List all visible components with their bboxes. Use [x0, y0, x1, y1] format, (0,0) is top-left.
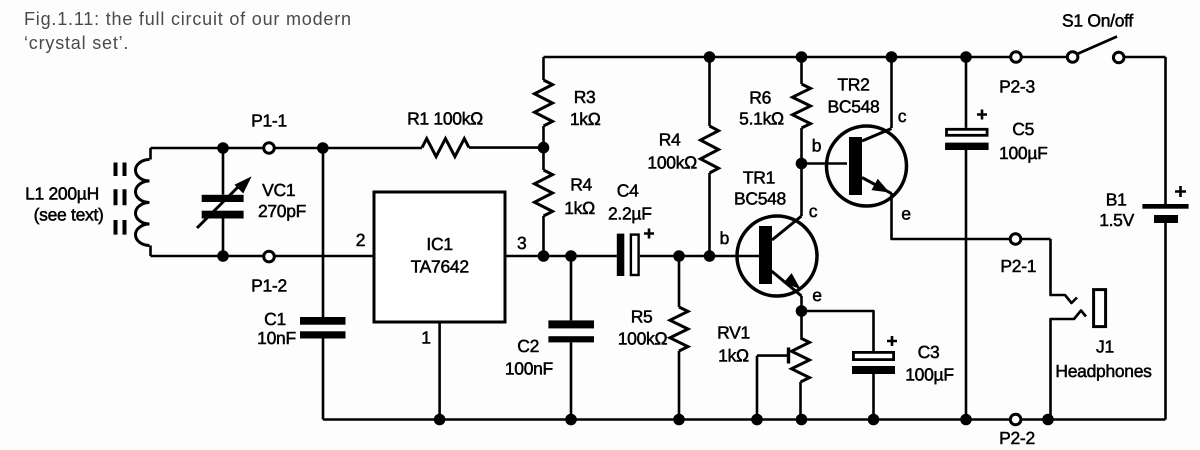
svg-text:BC548: BC548 [734, 189, 786, 209]
svg-text:2.2µF: 2.2µF [608, 204, 652, 224]
node: RV1 wiper ground junction [751, 414, 763, 426]
potentiometer RV1 body [792, 338, 810, 382]
resistor R4 1k [535, 170, 553, 216]
node: C2 junction [565, 250, 577, 262]
svg-text:R4: R4 [659, 130, 681, 150]
svg-text:100µF: 100µF [999, 143, 1047, 163]
wire: J1 upper contact from P2-1 [1051, 239, 1078, 303]
svg-text:TR1: TR1 [743, 168, 775, 188]
wire: TR1 collector vertical x=801.5 [800, 163, 803, 216]
wire: L1/VC1 tank top rail y=148 [151, 147, 423, 150]
node: TR2 collector rail junction [886, 51, 898, 63]
svg-text:C5: C5 [1012, 119, 1034, 139]
svg-text:R1 100kΩ: R1 100kΩ [407, 109, 483, 129]
svg-text:1.5V: 1.5V [1099, 210, 1134, 230]
svg-text:R5: R5 [631, 307, 653, 327]
node: C5 ground junction [960, 414, 972, 426]
wire: TR2 base wire y=164 [802, 162, 848, 165]
svg-text:P2-1: P2-1 [1000, 256, 1036, 276]
svg-text:VC1: VC1 [262, 180, 295, 200]
svg-text:P2-2: P2-2 [999, 428, 1035, 448]
svg-text:1kΩ: 1kΩ [718, 346, 749, 366]
capacitor C1 10nF [300, 317, 346, 339]
wire: TR2 emitter down to P2-1 line [892, 193, 1051, 239]
svg-text:2: 2 [356, 230, 365, 250]
svg-text:RV1: RV1 [717, 323, 750, 343]
inductor L1 [136, 160, 150, 246]
node: R5 ground junction [673, 414, 685, 426]
svg-text:TR2: TR2 [837, 75, 869, 95]
wire: VC1 branch x=223 [222, 148, 225, 256]
node: IC pin1 ground junction [434, 414, 446, 426]
svg-text:C4: C4 [617, 181, 639, 201]
switch S1 right contact [1113, 52, 1124, 63]
svg-text:Headphones: Headphones [1055, 361, 1152, 381]
L1 ferrite core dashes [116, 163, 125, 235]
wire: R4(100k) branch x=709.5 [708, 57, 711, 256]
svg-text:B1: B1 [1106, 189, 1127, 209]
wire: R3-R4 chain x=543.5 [542, 57, 545, 256]
svg-text:c: c [898, 106, 907, 126]
node: RV1 ground junction [796, 414, 808, 426]
wire: emitter to C3 branch [802, 311, 874, 420]
wire: top supply rail y=57 [544, 56, 1166, 59]
svg-text:(see text): (see text) [34, 205, 104, 225]
svg-text:e: e [812, 285, 821, 305]
resistor R1 100k [422, 139, 469, 157]
svg-text:100kΩ: 100kΩ [647, 153, 697, 173]
figure caption [24, 8, 352, 55]
wire: battery right edge x=1165.5 [1164, 57, 1167, 420]
node: VC1 bottom junction [217, 250, 229, 262]
wire: IC pin3 / signal line y=256 [505, 255, 759, 258]
svg-text:1kΩ: 1kΩ [570, 109, 601, 129]
svg-text:IC1: IC1 [426, 234, 452, 254]
capacitor C2 100nF [548, 320, 594, 342]
polarity + of C5 [977, 110, 987, 120]
capacitor C5 100uF electrolytic [945, 129, 989, 150]
node: pin3/R4 junction [538, 250, 550, 262]
svg-text:P1-1: P1-1 [251, 110, 287, 130]
wire: RV1 wiper to ground x=757 [757, 356, 787, 420]
polarity + of B1 [1175, 186, 1186, 197]
node: R5 junction [673, 250, 685, 262]
wire: C2 branch x=571 [570, 256, 573, 420]
svg-text:e: e [901, 204, 910, 224]
svg-text:P1-2: P1-2 [251, 276, 287, 296]
wire: TR2 collector vertical x=891.5 [890, 57, 893, 128]
svg-text:5.1kΩ: 5.1kΩ [739, 109, 784, 129]
resistor R5 100k [670, 307, 688, 351]
IC U1 TA7642 box [374, 192, 505, 322]
node: C3 ground junction [868, 414, 880, 426]
capacitor C4 2.2uF electrolytic [617, 234, 639, 276]
wire: R5 branch x=679 [678, 256, 681, 420]
resistor R4 100k [701, 126, 719, 173]
terminal P1-1 [264, 143, 275, 154]
jack J1 plug body [1094, 290, 1106, 327]
svg-text:L1 200µH: L1 200µH [25, 184, 99, 204]
switch S1 lever [1076, 37, 1117, 55]
node: J1 ground junction [1042, 414, 1054, 426]
wire: TR1 emitter vertical and RV1 top lead x=801.5 [801, 296, 802, 420]
svg-text:C2: C2 [517, 336, 539, 356]
node: antenna/R1 junction [317, 142, 329, 154]
svg-text:C1: C1 [264, 309, 286, 329]
wire: R6 branch x=801.5 [800, 57, 803, 163]
terminal P2-1 [1010, 234, 1021, 245]
battery B1 [1142, 204, 1188, 223]
svg-text:1kΩ: 1kΩ [564, 198, 595, 218]
node: R6 top rail junction [796, 51, 808, 63]
polarity + of C4 [644, 229, 654, 239]
svg-text:TA7642: TA7642 [411, 257, 469, 277]
svg-text:R6: R6 [749, 87, 771, 107]
potentiometer RV1 wiper T-bar [787, 348, 790, 364]
node: C2 ground junction [565, 414, 577, 426]
wire: antenna branch down x=323 through C1 to ground [322, 148, 325, 420]
wire: C5 branch x=966 [965, 57, 968, 420]
node: TR1 emitter junction [796, 305, 808, 317]
polarity + of C3 [887, 336, 897, 346]
svg-text:J1: J1 [1096, 337, 1114, 357]
resistor R6 5.1k [793, 84, 811, 128]
svg-text:P2-3: P2-3 [999, 76, 1035, 96]
svg-text:b: b [812, 136, 821, 156]
svg-text:C3: C3 [918, 342, 940, 362]
node: VC1 top junction [217, 142, 229, 154]
switch S1 left contact [1067, 52, 1078, 63]
capacitor C3 100uF electrolytic [852, 352, 895, 374]
wire: IC pin1 to ground x=439.6 [438, 322, 441, 420]
terminal P2-2 [1010, 414, 1021, 425]
svg-text:R3: R3 [574, 87, 596, 107]
svg-text:b: b [720, 228, 729, 248]
variable capacitor VC1 [197, 178, 251, 229]
wire: R1 left/right leads y=147.6 [469, 146, 544, 149]
transistor Q2 TR2 BC548 [827, 126, 907, 206]
resistor R3 1k [535, 80, 553, 126]
wire: L1 left leg verticals [149, 148, 152, 256]
svg-text:100nF: 100nF [505, 358, 553, 378]
svg-text:S1 On/off: S1 On/off [1062, 11, 1133, 31]
svg-text:100µF: 100µF [905, 365, 953, 385]
svg-text:100kΩ: 100kΩ [618, 328, 668, 348]
node: R6/TR2 base junction [796, 158, 808, 170]
svg-text:R4: R4 [570, 175, 592, 195]
wire: tank bottom / IC pin 2 line y=256 [151, 255, 375, 258]
wire: J1 lower contact to ground [1051, 311, 1087, 420]
svg-text:BC548: BC548 [827, 97, 879, 117]
node: R4-100k/TR1 base junction [704, 250, 716, 262]
wire: ground rail y=419.5 [323, 418, 1166, 421]
svg-text:c: c [809, 201, 818, 221]
node: R4-100k top rail junction [704, 51, 716, 63]
terminal P1-2 [264, 251, 275, 262]
svg-text:3: 3 [517, 233, 526, 253]
svg-text:10nF: 10nF [257, 328, 296, 348]
node: C5 top rail junction [960, 51, 972, 63]
terminal P2-3 [1011, 52, 1022, 63]
svg-text:270pF: 270pF [258, 201, 306, 221]
node: R1/R3/R4 junction [538, 142, 550, 154]
svg-text:1: 1 [421, 328, 430, 348]
transistor Q1 TR1 BC548 [737, 216, 817, 296]
